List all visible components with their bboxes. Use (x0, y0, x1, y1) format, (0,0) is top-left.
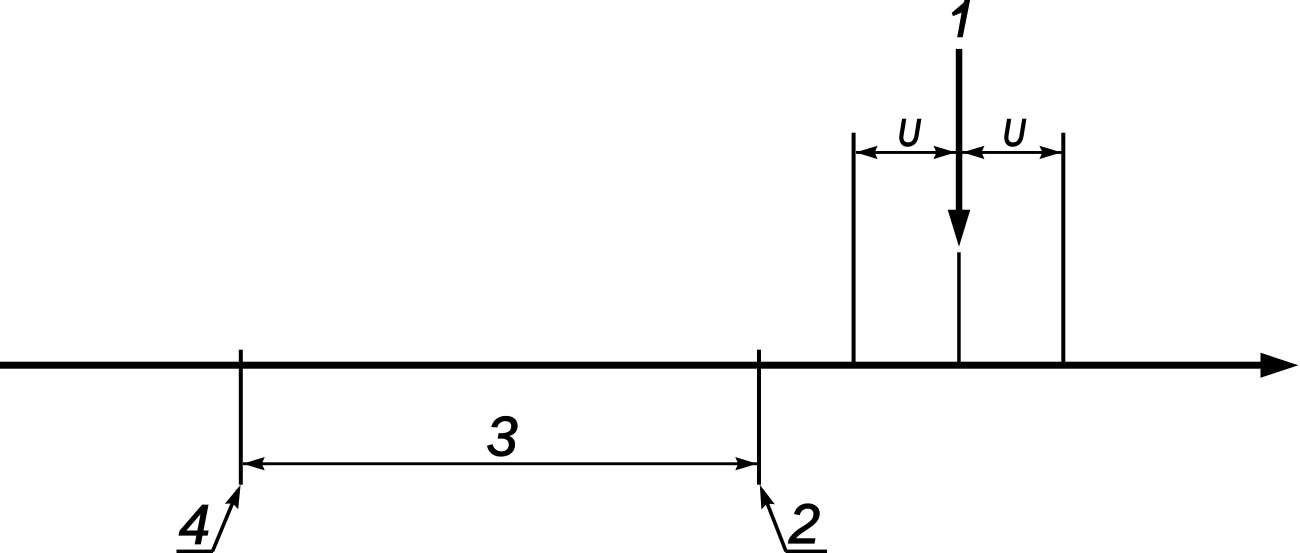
label U right (1003, 113, 1026, 155)
label 1 (952, 0, 971, 37)
axis arrowhead (1261, 353, 1299, 378)
label 2 underline (786, 550, 828, 553)
main axis line (0, 362, 1262, 369)
dimension line 3 (243, 462, 757, 465)
leader 4 arrowhead (225, 482, 247, 509)
leader 2 arrowhead (753, 482, 775, 509)
label 4 (179, 493, 210, 553)
impulse arrow 1 head (948, 210, 971, 247)
svg-text:U: U (1003, 113, 1026, 155)
dimension U outer-left arrowhead (856, 146, 878, 159)
impulse arrow 1 shaft (956, 49, 963, 211)
svg-text:4: 4 (179, 493, 210, 553)
dimension U inner-left arrowhead (934, 146, 956, 159)
label 4 underline (177, 550, 214, 553)
label 3 (486, 405, 517, 468)
impulse arrow 1 thin continuation (957, 252, 961, 365)
dimension U outer-right arrowhead (1039, 146, 1061, 159)
dimension 3 right arrowhead (735, 457, 757, 470)
svg-text:2: 2 (788, 492, 820, 553)
leader line 2 (762, 490, 786, 551)
tick line 2 (right vertical mark) (757, 350, 761, 485)
dimension 3 left arrowhead (243, 457, 265, 470)
tick line 4 (left vertical mark) (239, 350, 243, 485)
dimension line U (856, 151, 1062, 154)
right boundary line (1061, 133, 1065, 366)
left boundary line (852, 133, 856, 366)
svg-text:U: U (898, 113, 921, 155)
label 2 (788, 492, 820, 553)
dimension U inner-right arrowhead (963, 146, 985, 159)
leader line 4 (213, 490, 239, 551)
svg-text:3: 3 (486, 405, 517, 468)
label U left (898, 113, 921, 155)
